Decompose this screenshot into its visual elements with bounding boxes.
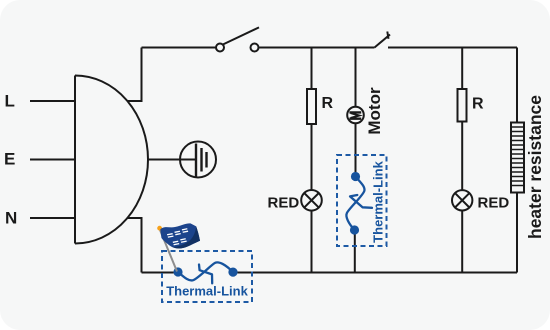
svg-text:Motor: Motor <box>365 87 384 135</box>
svg-text:L: L <box>5 92 15 111</box>
svg-text:Thermal-Link: Thermal-Link <box>370 160 385 242</box>
svg-text:RED: RED <box>478 195 510 212</box>
svg-text:R: R <box>472 96 484 113</box>
svg-text:N: N <box>5 209 17 228</box>
svg-text:Thermal-Link: Thermal-Link <box>166 284 248 299</box>
svg-text:heater resistance: heater resistance <box>525 95 545 239</box>
svg-text:RED: RED <box>268 195 300 212</box>
svg-text:R: R <box>322 95 334 112</box>
svg-text:E: E <box>4 150 15 169</box>
